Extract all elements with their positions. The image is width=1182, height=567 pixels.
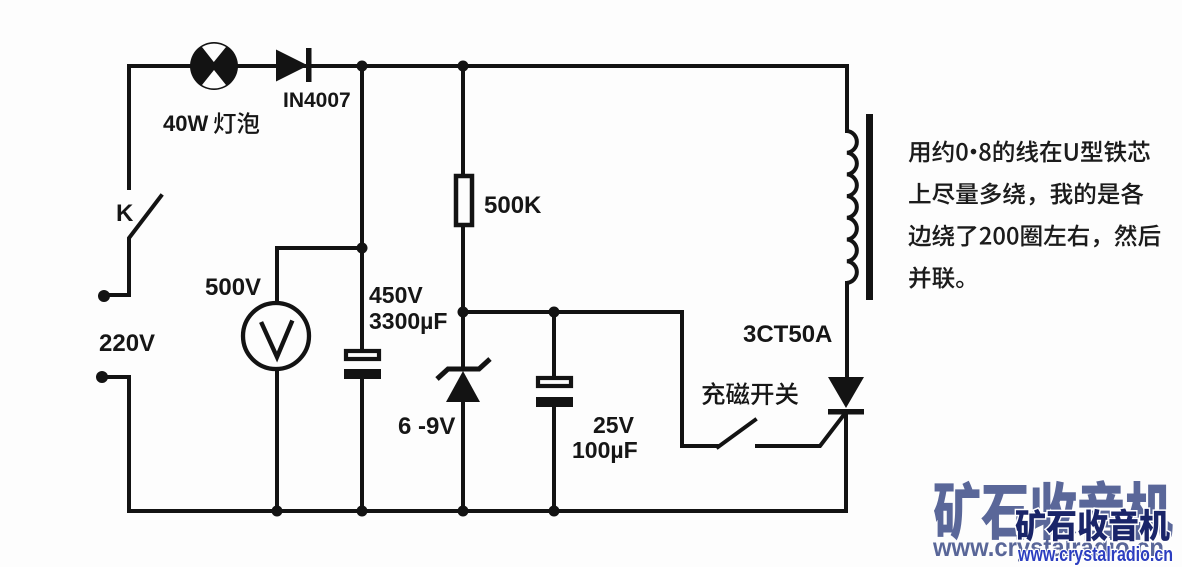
svg-text:500V: 500V [205, 274, 261, 301]
wire node C zener D2 to bottom bus [461, 401, 465, 511]
zener D2 cathode bar with tails [437, 359, 490, 379]
svg-text:40W: 40W [163, 111, 208, 136]
watermark big logo [934, 480, 1173, 540]
junction node (554,312) [549, 307, 560, 318]
SCR Q1 3CT50A triangle [828, 377, 864, 408]
wire top bus from left branch to coil [129, 66, 847, 188]
wire lower-left from 220V terminal to bottom bus [105, 377, 846, 511]
watermark dark logo [1016, 508, 1170, 541]
wire node D lower (cap C2 bottom to bottom bus) [552, 406, 556, 511]
svg-text:450V: 450V [369, 282, 423, 308]
terminal 220V lower [96, 371, 108, 383]
wire charge-switch blade [718, 420, 755, 447]
svg-text:IN4007: IN4007 [283, 89, 351, 112]
label chongci kaiguan (charge switch) [702, 382, 798, 405]
label dengpao (lamp) [214, 112, 259, 134]
voltmeter P1 V mark [262, 323, 292, 358]
capacitor C2 bottom plate [536, 397, 573, 407]
capacitor C1 450V 3300uF top plate [346, 351, 379, 359]
note text line 3 [908, 224, 1160, 247]
svg-text:6 -9V: 6 -9V [398, 413, 455, 440]
wire mid bus y=312 [463, 310, 682, 314]
lamp EL1 40W body [190, 42, 238, 90]
note text line 4 [909, 266, 963, 288]
wire node B vertical upper (to cap C1 top) [360, 66, 364, 349]
resistor R1 500K body [456, 176, 472, 225]
wire switch K blade [107, 196, 161, 295]
wire voltmeter top link to node B [277, 248, 362, 304]
svg-text:100µF: 100µF [572, 437, 638, 463]
junction node (277,511) [272, 506, 283, 517]
SCR Q1 cathode bar [828, 409, 864, 415]
note text line 1 [909, 140, 1150, 162]
capacitor C1 bottom plate [344, 369, 381, 379]
junction node (362,66) [357, 61, 368, 72]
svg-text:K: K [116, 200, 134, 227]
lamp EL1 bottom wedge [202, 70, 226, 88]
diode D1 IN4007 triangle [276, 50, 308, 82]
junction node (463,66) [458, 61, 469, 72]
wire node C resistor R1 to zener D2 [461, 225, 465, 368]
wire voltmeter bottom lead [275, 371, 279, 511]
lamp EL1 top wedge [202, 44, 226, 62]
svg-text:3300µF: 3300µF [369, 308, 447, 334]
diode D1 cathode bar [306, 48, 312, 82]
voltmeter P1 body [243, 303, 309, 369]
junction node (463,312) [458, 307, 469, 318]
inductor L1 core bar [866, 114, 873, 300]
junction node (362,511) [357, 506, 368, 517]
svg-text:3CT50A: 3CT50A [743, 321, 832, 348]
svg-text:www.crystalradio.cn: www.crystalradio.cn [1017, 544, 1173, 566]
junction node (554,511) [549, 506, 560, 517]
note text line 2 [909, 182, 1143, 205]
junction node (463,511) [458, 506, 469, 517]
terminal 220V upper [98, 290, 110, 302]
wire coil bottom to SCR anode [845, 283, 849, 378]
svg-text:25V: 25V [593, 412, 635, 438]
svg-text:220V: 220V [99, 330, 155, 357]
zener D2 triangle [446, 371, 480, 402]
capacitor C2 25V 100uF top plate [538, 378, 571, 386]
wire node B vertical lower (cap C1 bottom to bottom bus) [360, 379, 364, 511]
wire charge-switch branch [682, 312, 718, 446]
wire SCR gate lead [757, 412, 846, 446]
wire node D upper (to cap C2 top) [552, 312, 556, 378]
inductor L1 winding [847, 131, 857, 283]
wire node C vertical upper (to resistor R1) [461, 66, 465, 176]
svg-text:500K: 500K [484, 192, 542, 219]
junction node (362,248) [357, 243, 368, 254]
